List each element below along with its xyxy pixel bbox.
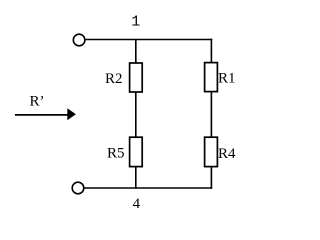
arrow R' head	[67, 108, 76, 120]
svg-text:4: 4	[133, 196, 141, 212]
wire right branch upper	[210, 39, 212, 63]
svg-text:R1: R1	[218, 71, 236, 87]
svg-text:R2: R2	[105, 71, 123, 87]
arrow R' shaft	[15, 114, 69, 116]
svg-text:1: 1	[131, 14, 140, 31]
resistor R2	[130, 63, 143, 92]
wire right branch lower	[210, 167, 212, 189]
wire left branch middle	[135, 92, 137, 138]
terminal top-left	[73, 34, 85, 46]
svg-text:R4: R4	[218, 146, 236, 162]
wire top horizontal	[86, 39, 213, 41]
wire left branch upper	[135, 40, 137, 64]
wire bottom horizontal	[84, 187, 212, 189]
svg-text:R’: R’	[30, 94, 45, 110]
resistor R4	[205, 137, 218, 166]
wire left branch lower	[135, 167, 137, 189]
wire right branch middle	[210, 92, 212, 138]
resistor R1	[205, 63, 218, 92]
svg-text:R5: R5	[107, 146, 125, 162]
resistor R5	[130, 137, 143, 166]
terminal bottom-left	[72, 182, 84, 194]
